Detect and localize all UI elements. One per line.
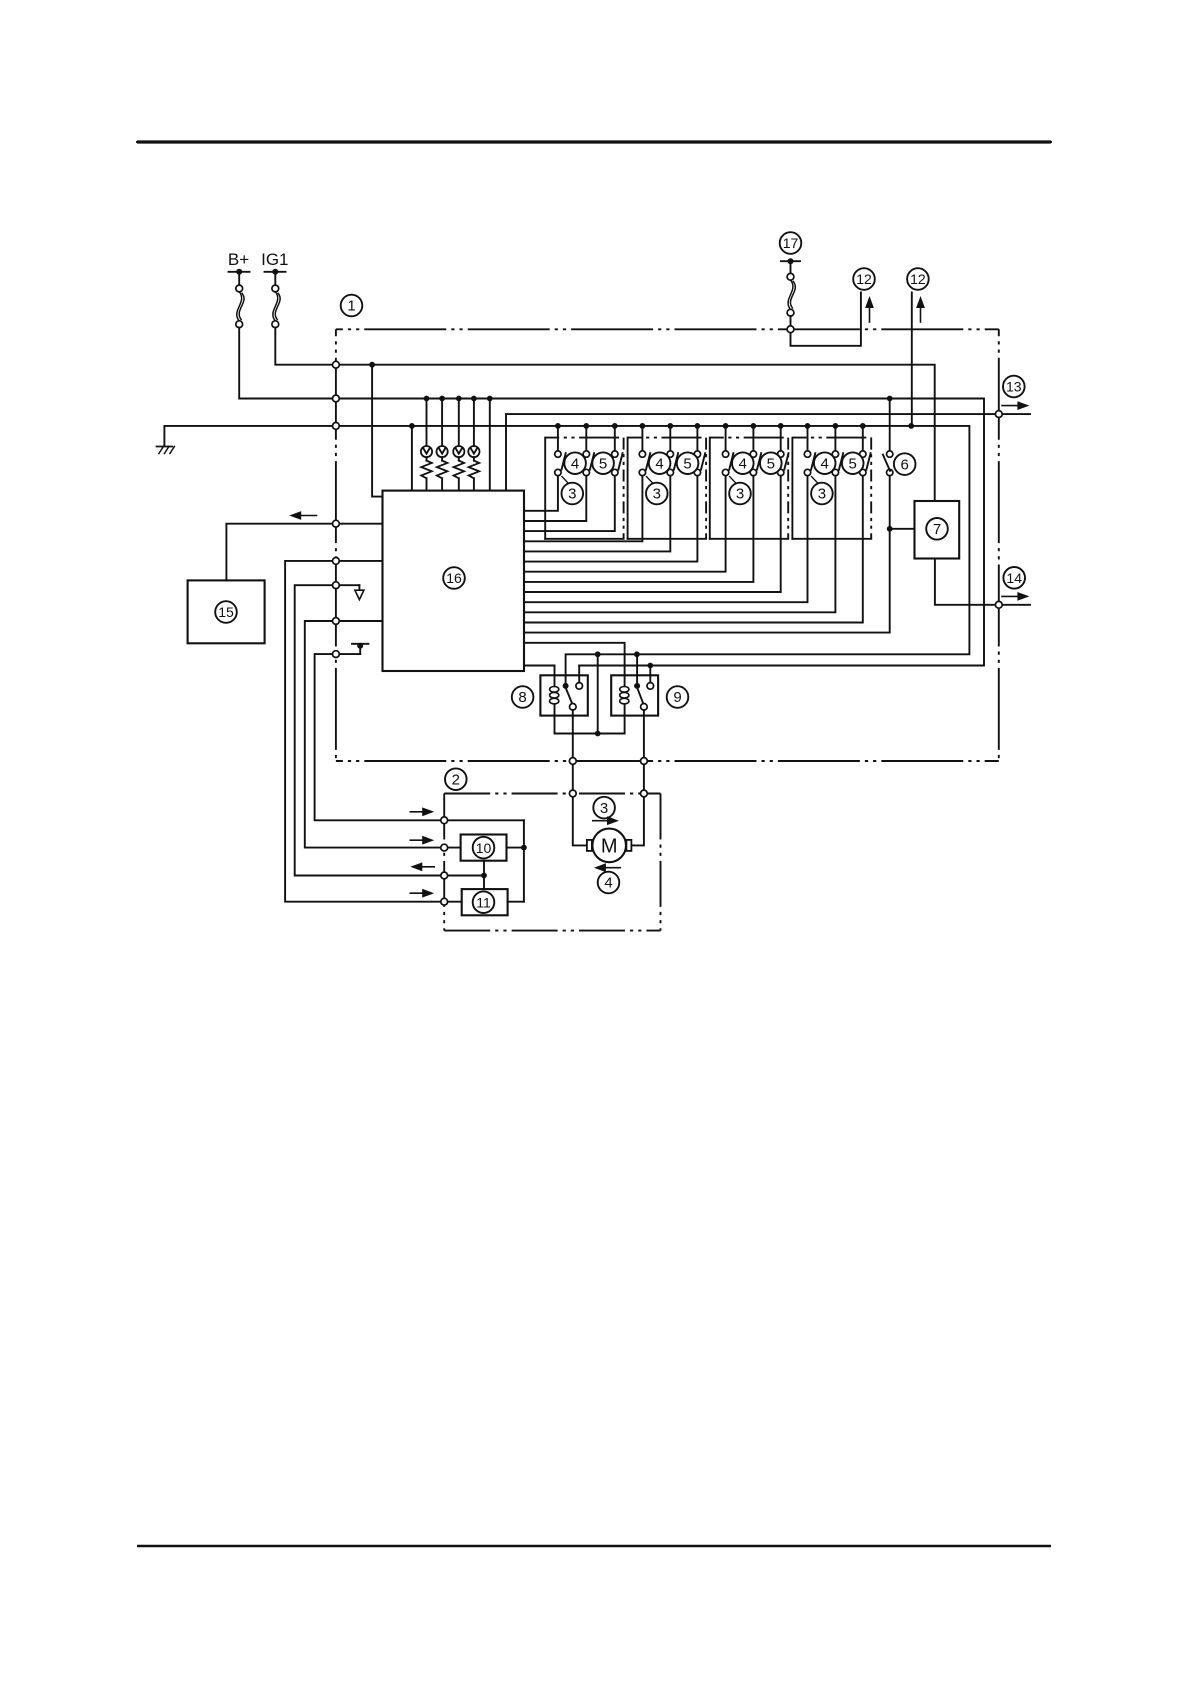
label 4 group 4 (814, 452, 836, 474)
boundary circle output 14 (995, 601, 1002, 608)
wire 12b input (911, 292, 913, 426)
label 4 group 3 (732, 452, 754, 474)
label 4 (motor direction) (598, 872, 620, 894)
wire common vertical in box 2 (523, 820, 525, 901)
label 3 (motor direction) (593, 797, 615, 819)
svg-text:8: 8 (518, 689, 526, 706)
label 17 (780, 232, 802, 254)
wire switch S1-2 to unit 16 (524, 476, 586, 521)
switch S4-2 (832, 423, 843, 476)
junction dot coil rail (595, 731, 601, 737)
label 2 (445, 768, 467, 790)
switch group 4 box (dash-dot) (792, 438, 871, 539)
boundary circle output 13 (995, 411, 1002, 418)
wire switch S4-3 to unit 16 (524, 476, 863, 623)
label 5 group 2 (677, 452, 699, 474)
svg-text:3: 3 (818, 486, 826, 503)
label 15 (215, 601, 237, 623)
wire switch S3-1 to unit 16 (524, 476, 726, 572)
svg-text:4: 4 (655, 455, 663, 472)
resistor R2 (437, 461, 448, 479)
wire switch S2-3 to unit 16 (524, 476, 697, 562)
svg-text:4: 4 (604, 875, 612, 892)
wire unit16 to unit15 (226, 524, 382, 581)
wire 17 to output 12a (791, 292, 861, 345)
indicator lamp L1 (421, 399, 432, 461)
resistor R3 (454, 461, 465, 479)
wire unit16 to entry 2 of box 2 (305, 621, 461, 848)
junction dots on common line (409, 423, 914, 657)
wire lamp 1 to unit 16 (426, 478, 428, 490)
svg-text:10: 10 (476, 840, 492, 856)
wire output 14 (935, 559, 1030, 605)
switch group 2 box (dash-dot) (628, 438, 707, 539)
wire switch S1-3 to unit 16 (524, 476, 615, 531)
wire unit16 to entry 4 of box 2 (285, 561, 462, 902)
wire switch S4-2 to unit 16 (524, 476, 835, 613)
page footer rule (137, 1545, 1051, 1548)
indicator lamp L2 (437, 399, 448, 461)
signal-ground stub (355, 585, 364, 599)
arrow up 12a (865, 296, 874, 322)
svg-text:3: 3 (568, 486, 576, 503)
svg-text:5: 5 (683, 455, 691, 472)
svg-text:7: 7 (933, 521, 941, 538)
relay RL9 (611, 675, 658, 715)
svg-text:17: 17 (783, 235, 799, 251)
junction dot at unit7 feed (887, 526, 893, 532)
indicator lamp L4 (468, 399, 479, 461)
motor assembly box 2 (dash-dot) (444, 794, 660, 931)
svg-text:3: 3 (736, 486, 744, 503)
wire terminal stub to entry 1 of box 2 (315, 654, 524, 820)
switch S1-3 (612, 423, 623, 476)
wire relay9 NC terminal to B+ line (649, 666, 651, 683)
wire lamp 4 to unit 16 (473, 478, 475, 490)
wire switch S4-1 to unit 16 (524, 476, 808, 602)
control unit U16 (383, 491, 525, 671)
label 12a (853, 268, 875, 290)
arrow to unit 15 (289, 511, 316, 520)
connector boundary box 1 (dash-dot) (336, 329, 999, 761)
label 4 group 1 (564, 452, 586, 474)
leader to label 3 group 1 (562, 477, 569, 484)
svg-text:4: 4 (571, 455, 579, 472)
terminal stub (bar-dot) (352, 643, 368, 654)
svg-text:14: 14 (1006, 570, 1022, 586)
switch S2-3 (694, 423, 705, 476)
wire relay9 to motor (right) (631, 710, 644, 845)
leader to label 3 group 2 (646, 477, 653, 484)
switch S6 (883, 399, 893, 476)
label 8 (512, 686, 534, 708)
wire unit16 to relay 9 coil (524, 643, 625, 676)
wire unit11 output (508, 901, 524, 903)
wire relay9 NO terminal to common line (636, 654, 638, 686)
label 14 (1003, 567, 1025, 589)
svg-text:5: 5 (849, 455, 857, 472)
svg-text:11: 11 (476, 894, 491, 910)
label 7 (926, 518, 948, 540)
relay RL8 (540, 675, 587, 715)
wire relay8 NC terminal to B+ line (578, 666, 580, 683)
leader to label 3 group 4 (812, 477, 819, 484)
junction dot IG1 branch (369, 362, 375, 368)
fuse F2 (IG1) (272, 285, 280, 328)
label 10 (473, 837, 495, 859)
svg-text:13: 13 (1006, 379, 1022, 395)
fuse F1 (B+) (236, 285, 244, 328)
svg-text:4: 4 (739, 455, 747, 472)
label 3 group 2 (646, 483, 668, 505)
unit 15 box (188, 580, 265, 643)
junction dots on B+ line (424, 396, 893, 669)
wire IG1 branch into control unit 16 (372, 365, 382, 497)
arrow motor direction 4 (594, 863, 620, 872)
wire unit10 output (507, 847, 524, 849)
switch group 3 box (dash-dot) (710, 438, 788, 539)
junction dot unit10/11 link (481, 873, 487, 879)
arrow output 13 (1002, 401, 1029, 410)
svg-text:2: 2 (452, 771, 460, 788)
svg-text:16: 16 (446, 570, 462, 586)
arrow up 12b (916, 296, 925, 322)
label 16 (443, 567, 465, 589)
svg-text:4: 4 (821, 455, 829, 472)
wire ground / switch common line (164, 426, 969, 686)
wire between unit10 and unit11 (483, 861, 485, 889)
boundary circles on box 2 edges (441, 790, 647, 905)
label 5 group 3 (760, 452, 782, 474)
wire switch S3-2 to unit 16 (524, 476, 753, 582)
wire IG1 feed to box 7 (275, 328, 934, 501)
wire switch 6 to unit 16 (524, 476, 890, 633)
switch S2-2 (667, 423, 678, 476)
terminal 17 (bar-dot) (781, 258, 800, 273)
unit 10 box (461, 835, 507, 861)
label 11 (473, 891, 495, 913)
svg-text:9: 9 (673, 689, 681, 706)
relay coil return rail (555, 716, 625, 734)
switch S4-3 (860, 423, 871, 476)
svg-text:5: 5 (599, 455, 607, 472)
wire coil rail riser (597, 654, 599, 733)
switch group 1 box (dash-dot) (545, 438, 623, 539)
boundary circle on box1 top edge (787, 326, 794, 333)
label 3 group 4 (811, 483, 833, 505)
wire unit16 to relay 8 coil (524, 666, 555, 676)
label 4 group 2 (649, 452, 671, 474)
wire output 13 (506, 414, 1030, 491)
label 1 (341, 295, 363, 317)
svg-text:5: 5 (767, 455, 775, 472)
wire B+ feed (239, 328, 984, 666)
switch S3-2 (750, 423, 761, 476)
switch S4-1 (804, 423, 815, 476)
page header rule (137, 141, 1051, 143)
ground (chassis) (157, 447, 175, 454)
svg-text:IG1: IG1 (261, 250, 288, 269)
svg-text:1: 1 (347, 298, 355, 315)
resistor R4 (469, 461, 480, 479)
switch S3-3 (778, 423, 789, 476)
wire switch S3-3 to unit 16 (524, 476, 781, 592)
svg-text:M: M (601, 835, 618, 857)
svg-text:12: 12 (856, 271, 872, 287)
label 12b (907, 268, 929, 290)
B+ terminal (229, 269, 250, 285)
svg-text:3: 3 (653, 486, 661, 503)
unit 11 box (462, 889, 508, 915)
label 3 group 3 (729, 483, 751, 505)
entry arrows into box 2 (410, 807, 434, 897)
switch S1-2 (583, 423, 594, 476)
wire switch S2-2 to unit 16 (524, 476, 670, 552)
svg-text:15: 15 (218, 604, 234, 620)
wire common tap to unit 16 (411, 426, 413, 491)
label 9 (667, 686, 689, 708)
switch S2-1 (639, 423, 650, 476)
arrow output 14 (1002, 592, 1029, 601)
label 3 group 1 (562, 483, 584, 505)
wire relay8 to motor (left) (573, 710, 587, 845)
boundary circles on box 1 left edge (333, 361, 340, 657)
svg-text:B+: B+ (228, 250, 249, 269)
unit 7 box (915, 501, 960, 559)
label 5 group 1 (592, 452, 614, 474)
wire switch 6 to unit 7 (890, 528, 915, 530)
leader to label 3 group 3 (730, 477, 737, 484)
wire signal-ground to entry 3 of box 2 (295, 585, 484, 875)
svg-text:6: 6 (901, 456, 909, 473)
wire switch S2-1 to unit 16 (524, 476, 642, 542)
wire lamp 3 to unit 16 (458, 478, 460, 490)
motor M1 (587, 829, 632, 863)
wire B+ tap 5 to unit 16 (489, 399, 491, 491)
label 13 (1003, 376, 1025, 398)
indicator lamp L3 (453, 399, 464, 461)
resistor R1 (421, 461, 432, 479)
svg-text:3: 3 (600, 800, 608, 817)
IG1 terminal (265, 269, 286, 285)
label 6 (894, 453, 916, 475)
label 5 group 4 (842, 452, 864, 474)
fuse F3 (17) (787, 273, 795, 316)
switch S1-1 (555, 423, 566, 476)
svg-text:12: 12 (910, 271, 926, 287)
arrow motor direction 3 (593, 816, 619, 825)
wire lamp 2 to unit 16 (441, 478, 443, 490)
wire switch S1-1 to unit 16 (524, 476, 558, 511)
junction dot box2 vertical (521, 845, 527, 851)
boundary circles on box1 bottom edge (569, 758, 647, 765)
switch S3-1 (722, 423, 733, 476)
